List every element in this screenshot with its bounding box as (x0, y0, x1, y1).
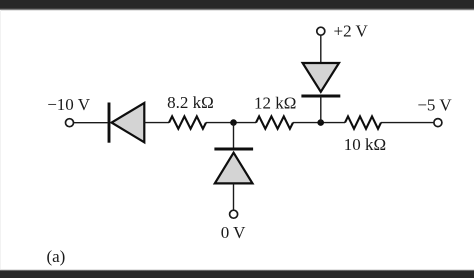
svg-text:(a): (a) (46, 247, 65, 266)
diode D2 (top, pointing down) (301, 63, 340, 96)
node: -10 V input terminal (66, 119, 74, 127)
svg-text:+2 V: +2 V (334, 22, 369, 41)
svg-text:8.2 kΩ: 8.2 kΩ (167, 93, 214, 112)
node A junction dot (230, 119, 237, 126)
wire from -10V terminal to diode D1 (74, 122, 108, 124)
wire D3 to 0V terminal (233, 183, 235, 210)
resistor R1 8.2 kOhm (169, 116, 206, 128)
wire from D1 to resistor R1 (144, 122, 169, 124)
wire R3 to -5V terminal (381, 122, 434, 124)
svg-text:−5 V: −5 V (417, 96, 452, 115)
wire R1 to R2 (206, 122, 256, 124)
node: 0 V terminal (230, 210, 238, 218)
svg-text:0 V: 0 V (221, 223, 246, 242)
wire R2 to R3 (293, 122, 345, 124)
bottom border bar (0, 269, 474, 271)
left page edge line (0, 10, 1, 269)
node: +2 V terminal (317, 27, 325, 35)
wire node A down to diode D3 (233, 123, 235, 149)
node B junction dot (317, 119, 324, 126)
node: -5 V terminal (434, 119, 442, 127)
wire D2 to node B (320, 96, 322, 123)
resistor R3 10 kOhm (345, 116, 381, 128)
svg-text:12 kΩ: 12 kΩ (254, 94, 296, 113)
top border bar (0, 0, 474, 9)
diode D1 (left, cathode bar at left) (109, 103, 144, 143)
diode D3 (middle, pointing up) (214, 149, 253, 183)
svg-text:−10 V: −10 V (47, 95, 91, 114)
resistor R2 12 kOhm (256, 116, 293, 128)
wire +2V terminal down to diode D2 (320, 35, 322, 63)
svg-text:10 kΩ: 10 kΩ (344, 135, 386, 154)
